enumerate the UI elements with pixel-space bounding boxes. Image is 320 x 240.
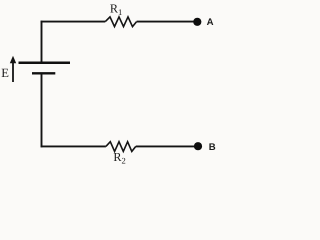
wire left upper: top corner down to battery top plate <box>41 21 43 62</box>
battery E bottom plate (short) <box>32 72 55 74</box>
resistor R2 <box>106 142 136 152</box>
svg-text:E: E <box>1 66 9 80</box>
emf direction arrow <box>12 60 14 82</box>
battery E top plate (long) <box>19 62 71 65</box>
wire bottom: R2 to node B <box>136 145 195 147</box>
wire left lower: battery bottom plate down to bottom corner <box>41 73 43 147</box>
node A terminal dot <box>193 18 201 26</box>
svg-text:B: B <box>209 142 216 153</box>
node B terminal dot <box>194 142 202 150</box>
wire top: left corner to R1 <box>41 21 106 23</box>
wire top: R1 to node A <box>137 21 194 23</box>
wire bottom: left corner to R2 <box>41 145 106 147</box>
svg-text:A: A <box>207 17 214 28</box>
resistor R1 <box>105 17 136 27</box>
